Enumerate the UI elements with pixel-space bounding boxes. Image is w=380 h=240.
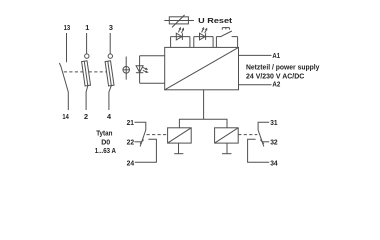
svg-text:22: 22	[127, 138, 135, 147]
svg-text:A1: A1	[272, 51, 280, 60]
svg-text:U Reset: U Reset	[198, 16, 233, 25]
svg-text:34: 34	[270, 159, 278, 168]
tab 3 on top	[216, 37, 237, 48]
wire 32	[262, 141, 269, 143]
push button S1 (reset)	[221, 28, 232, 37]
wire 31	[258, 122, 269, 130]
svg-text:13: 13	[64, 23, 71, 32]
terminal circle pole 1	[85, 54, 89, 58]
svg-text:24 V/230 V AC/DC: 24 V/230 V AC/DC	[246, 71, 305, 80]
wire 21	[135, 122, 146, 130]
wire 24	[135, 139, 157, 162]
wire A1	[239, 54, 272, 56]
svg-text:21: 21	[127, 118, 134, 127]
wire fuse1 to 2	[86, 86, 88, 110]
svg-text:A2: A2	[272, 79, 280, 88]
svg-text:31: 31	[270, 118, 277, 127]
LED D3 (top)	[200, 27, 208, 40]
relay bus	[179, 119, 227, 128]
K2 termination	[222, 143, 232, 154]
svg-text:14: 14	[62, 112, 69, 121]
svg-text:32: 32	[270, 138, 278, 147]
svg-text:1...63 A: 1...63 A	[95, 146, 117, 155]
fuse blade F1 (Tytan D0)	[82, 61, 91, 86]
svg-text:2: 2	[84, 112, 88, 121]
wire 13 down	[66, 33, 68, 62]
changeover blade 21	[140, 130, 146, 146]
mechanical link dashed (F1 to F2)	[89, 71, 107, 73]
svg-text:4: 4	[107, 112, 112, 121]
svg-text:D0: D0	[101, 137, 110, 146]
svg-text:24: 24	[127, 159, 135, 168]
relay coil K2	[215, 128, 239, 143]
wire to 14	[67, 92, 69, 110]
mechanical link dashed (blade to F1)	[64, 71, 83, 73]
terminal circle pole 3	[108, 54, 112, 58]
svg-text:3: 3	[109, 23, 113, 32]
tab 1 on top	[171, 37, 190, 48]
LED branch box (left of power supply)	[140, 56, 165, 83]
wire fuse2 to 4	[109, 86, 111, 110]
relay coil K1	[168, 128, 192, 143]
LED D1 (side)	[136, 66, 149, 73]
fuse blade F2 (Tytan D0)	[105, 61, 114, 86]
changeover blade 31	[258, 130, 264, 146]
LED D2 (top)	[176, 27, 184, 40]
wire 1 down	[86, 33, 88, 54]
K1 termination	[174, 143, 183, 154]
svg-text:1: 1	[85, 23, 89, 32]
power supply box U1	[165, 47, 239, 89]
mechanical link dashed (contact 21 to K1)	[147, 134, 168, 136]
contact tick 32	[260, 140, 264, 144]
wire 34	[248, 139, 270, 162]
wire 22	[135, 141, 143, 143]
wire A2	[239, 84, 272, 86]
svg-text:Tytan: Tytan	[96, 128, 112, 137]
power supply diagonal	[165, 47, 239, 89]
wire 3 down	[109, 33, 111, 54]
mechanical link dashed (K2 to contact 31)	[238, 134, 257, 136]
lamp indicator	[123, 57, 130, 80]
wire power supply to relay bus	[203, 90, 205, 119]
tab 2 on top	[194, 37, 213, 48]
contact tick 22	[140, 140, 144, 144]
U Reset legend symbol	[164, 15, 194, 28]
switch blade 13-14	[59, 63, 68, 92]
svg-text:Netzteil / power supply: Netzteil / power supply	[246, 62, 320, 71]
